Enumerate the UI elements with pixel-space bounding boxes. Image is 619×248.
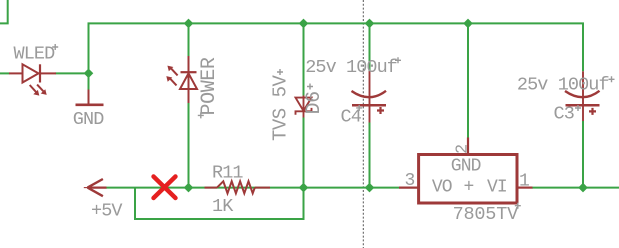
capacitor C3 [565, 71, 600, 121]
svg-text:D6: D6 [303, 91, 326, 114]
wire bypass rectangle [135, 188, 304, 219]
capacitor C4 [352, 71, 387, 123]
pin 2 stub [467, 138, 469, 155]
origin cross D6 [307, 84, 313, 90]
node junction WLED-GND [84, 69, 94, 79]
LED POWER [170, 56, 197, 103]
wire bottom-right VI bus [532, 187, 619, 189]
svg-text:2: 2 [454, 144, 473, 154]
svg-text:3: 3 [405, 171, 416, 191]
node junction bottom POWER [184, 183, 194, 193]
svg-text:+5V: +5V [91, 200, 122, 221]
svg-text:VO: VO [432, 178, 452, 198]
wire GND top bus with left riser and right drop [89, 23, 584, 73]
wire TVS upper [303, 23, 305, 95]
LED WLED [9, 64, 56, 92]
node junction top POWER [184, 19, 194, 29]
svg-text:7805TV: 7805TV [453, 204, 519, 225]
ERC error marker X [154, 177, 176, 199]
pin 3 stub [399, 187, 418, 189]
node junction top TVS [299, 19, 309, 29]
svg-text:1: 1 [519, 171, 530, 191]
diode D6 TVS [296, 96, 312, 118]
svg-text:+: + [464, 178, 475, 198]
resistor R11 [205, 181, 271, 193]
svg-text:R11: R11 [212, 163, 243, 184]
pin 1 stub [517, 187, 533, 189]
origin cross C4 value [395, 57, 401, 63]
wire GND symbol drop [88, 73, 90, 90]
origin cross TVS [277, 69, 283, 75]
origin cross C3 [575, 105, 581, 111]
svg-text:GND: GND [451, 157, 481, 177]
svg-text:1K: 1K [212, 196, 234, 217]
wire C4 lower [369, 123, 371, 188]
wire POWER led lower [188, 103, 190, 188]
origin cross C4 [356, 105, 362, 111]
svg-text:25v 100uf: 25v 100uf [305, 57, 397, 78]
svg-text:TVS 5V: TVS 5V [270, 74, 292, 141]
wire top-left corner stub [0, 0, 8, 23]
svg-text:C3: C3 [554, 104, 574, 125]
node junction bottom C3 [578, 183, 588, 193]
regulator U1 7805TV box [419, 155, 517, 204]
wire WLED left stub [0, 72, 10, 74]
wire C3 lower [582, 121, 584, 188]
svg-text:WLED: WLED [14, 44, 56, 65]
origin cross C3 value [609, 76, 615, 82]
svg-text:POWER: POWER [198, 57, 221, 115]
wire WLED cathode to junction [56, 72, 89, 74]
wire regulator pin2 drop [467, 23, 469, 137]
svg-text:GND: GND [73, 109, 104, 130]
origin cross 7805TV [515, 203, 521, 209]
node junction top C4 [365, 19, 375, 29]
svg-text:25v 100uf: 25v 100uf [517, 75, 609, 96]
node junction top pin2 [463, 19, 473, 29]
node junction bottom C4 [365, 183, 375, 193]
svg-text:VI: VI [487, 178, 507, 198]
origin cross WLED [52, 44, 58, 50]
origin cross POWER [198, 112, 204, 118]
sheet boundary dashed line [362, 0, 364, 248]
supply +5V arrow [84, 179, 107, 196]
ground GND [88, 90, 90, 107]
wire POWER led upper [188, 23, 190, 56]
wire C4 upper [369, 23, 371, 71]
wire TVS lower [303, 118, 305, 188]
wire bottom-left +5V bus [106, 187, 400, 189]
node junction bottom TVS [299, 183, 309, 193]
